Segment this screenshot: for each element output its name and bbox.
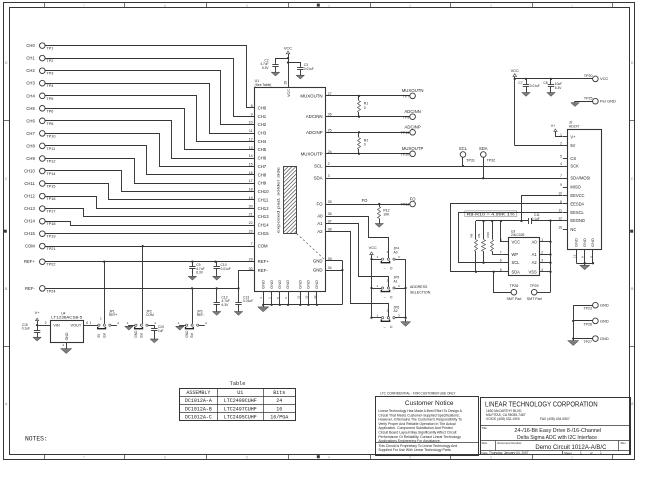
- svg-text:VCC: VCC: [284, 46, 292, 51]
- svg-text:GND: GND: [582, 238, 587, 247]
- svg-text:6.3V: 6.3V: [262, 66, 269, 70]
- svg-text:VCC: VCC: [512, 239, 521, 244]
- svg-text:CH2: CH2: [258, 122, 267, 127]
- svg-text:22: 22: [249, 221, 253, 225]
- svg-text:33: 33: [313, 295, 317, 299]
- svg-text:TP16: TP16: [46, 197, 55, 201]
- svg-text:6: 6: [86, 321, 88, 325]
- svg-text:EESCL: EESCL: [570, 210, 584, 215]
- svg-text:10K: 10K: [383, 213, 390, 217]
- svg-text:A1: A1: [394, 279, 398, 283]
- svg-text:VOICE (408) 432-1900: VOICE (408) 432-1900: [486, 417, 520, 421]
- svg-text:ADCINN: ADCINN: [306, 114, 323, 119]
- svg-text:CH9: CH9: [26, 156, 35, 161]
- svg-text:R9: R9: [477, 233, 481, 237]
- svg-text:LT1236ACS8-5: LT1236ACS8-5: [51, 316, 82, 320]
- svg-text:TP2: TP2: [46, 59, 53, 63]
- svg-text:GND: GND: [260, 280, 265, 289]
- svg-text:2: 2: [541, 251, 543, 255]
- svg-text:TP26: TP26: [583, 322, 592, 326]
- svg-text:SCL: SCL: [459, 146, 468, 151]
- svg-text:GND: GND: [134, 330, 138, 338]
- svg-text:10: 10: [558, 192, 562, 196]
- svg-text:MUXOUTN: MUXOUTN: [402, 88, 424, 93]
- svg-text:16/PGA: 16/PGA: [270, 415, 288, 421]
- svg-text:C7: C7: [518, 81, 522, 85]
- svg-text:FO: FO: [410, 196, 417, 201]
- svg-text:NC: NC: [570, 227, 576, 232]
- svg-text:19: 19: [249, 196, 253, 200]
- svg-text:4: 4: [541, 268, 543, 272]
- svg-text:CS: CS: [570, 156, 576, 161]
- svg-text:6: 6: [164, 455, 166, 459]
- svg-text:0.01uF: 0.01uF: [221, 267, 231, 271]
- svg-text:TP1: TP1: [46, 47, 53, 51]
- svg-text:0.01uF: 0.01uF: [304, 67, 314, 71]
- svg-text:VCC: VCC: [287, 89, 291, 97]
- svg-text:0: 0: [364, 143, 366, 147]
- svg-text:TP24: TP24: [46, 289, 55, 293]
- svg-text:21: 21: [296, 295, 300, 299]
- svg-text:REF-: REF-: [25, 286, 35, 291]
- svg-text:1: 1: [600, 451, 602, 455]
- svg-text:(See Table): (See Table): [255, 83, 272, 87]
- svg-text:38: 38: [328, 228, 332, 232]
- svg-text:CH7: CH7: [26, 131, 35, 136]
- svg-text:6.3V: 6.3V: [222, 303, 230, 307]
- svg-text:Document Number: Document Number: [497, 441, 521, 445]
- svg-text:V+: V+: [551, 124, 555, 128]
- svg-text:TP13: TP13: [401, 131, 410, 135]
- svg-text:GND: GND: [574, 238, 579, 247]
- svg-text:11: 11: [249, 129, 253, 133]
- svg-text:CH2: CH2: [26, 68, 35, 73]
- svg-text:3: 3: [409, 4, 411, 8]
- svg-text:ADDRESS: ADDRESS: [410, 285, 428, 289]
- svg-text:1: 1: [541, 238, 543, 242]
- svg-text:9: 9: [560, 183, 562, 187]
- svg-text:VCC: VCC: [369, 246, 377, 250]
- svg-text:14: 14: [249, 154, 253, 158]
- svg-text:CH6: CH6: [26, 118, 35, 123]
- svg-text:COM: COM: [146, 313, 154, 317]
- svg-text:CH5: CH5: [26, 106, 35, 111]
- svg-text:MUXOUTP: MUXOUTP: [301, 151, 323, 156]
- svg-text:13: 13: [572, 254, 576, 258]
- svg-text:CH11: CH11: [258, 198, 269, 203]
- svg-text:TP19: TP19: [46, 235, 55, 239]
- svg-text:12: 12: [249, 137, 253, 141]
- svg-text:of: of: [590, 451, 593, 455]
- svg-text:32: 32: [304, 295, 308, 299]
- svg-text:4: 4: [328, 4, 330, 8]
- svg-text:CH3: CH3: [26, 81, 35, 86]
- svg-text:COM: COM: [25, 244, 35, 249]
- svg-text:5V: 5V: [570, 143, 575, 148]
- svg-text:EEGND: EEGND: [570, 218, 585, 223]
- svg-text:VOUT: VOUT: [70, 323, 81, 328]
- svg-text:COM: COM: [258, 244, 268, 249]
- svg-text:Ext: Ext: [190, 333, 194, 338]
- svg-text:TP6: TP6: [46, 109, 53, 113]
- svg-text:GND: GND: [600, 318, 609, 323]
- svg-text:7: 7: [251, 242, 253, 246]
- svg-text:SDA/MOSI: SDA/MOSI: [570, 176, 590, 181]
- svg-text:SDA: SDA: [479, 146, 488, 151]
- svg-text:TP30: TP30: [401, 153, 410, 157]
- svg-text:CH8: CH8: [26, 143, 35, 148]
- svg-text:REF+: REF+: [258, 259, 270, 264]
- svg-text:MISO: MISO: [570, 185, 580, 190]
- svg-text:SCL: SCL: [314, 164, 323, 169]
- svg-text:GND: GND: [65, 332, 69, 340]
- svg-text:A0: A0: [317, 214, 323, 219]
- svg-text:23: 23: [249, 229, 253, 233]
- svg-text:8: 8: [500, 238, 502, 242]
- svg-text:GND: GND: [298, 280, 303, 289]
- svg-text:R8: R8: [470, 233, 474, 237]
- svg-text:25: 25: [328, 128, 332, 132]
- svg-text:TP9: TP9: [403, 115, 410, 119]
- svg-text:CH12: CH12: [258, 206, 270, 211]
- svg-text:7: 7: [560, 174, 562, 178]
- svg-text:MUXOUTP: MUXOUTP: [402, 146, 424, 151]
- svg-text:TP15: TP15: [46, 185, 55, 189]
- svg-text:1uF: 1uF: [158, 329, 164, 333]
- svg-text:U1: U1: [237, 390, 243, 396]
- svg-text:TP31: TP31: [466, 159, 475, 163]
- svg-text:CH4: CH4: [26, 93, 35, 98]
- svg-text:29: 29: [249, 258, 253, 262]
- svg-text:CH10: CH10: [258, 189, 270, 194]
- svg-text:3: 3: [328, 174, 330, 178]
- svg-text:4: 4: [328, 455, 330, 459]
- svg-text:Table: Table: [230, 381, 246, 387]
- svg-text:GND: GND: [313, 259, 323, 264]
- svg-text:16: 16: [276, 406, 282, 412]
- svg-text:C8: C8: [543, 81, 547, 85]
- svg-text:V+: V+: [35, 310, 41, 315]
- svg-text:CH14: CH14: [24, 219, 35, 224]
- svg-text:SMT Pad: SMT Pad: [527, 297, 542, 301]
- svg-text:R10: R10: [486, 232, 490, 238]
- svg-text:TP14: TP14: [46, 172, 55, 176]
- svg-text:GND: GND: [306, 280, 311, 289]
- svg-text:7: 7: [83, 4, 85, 8]
- svg-text:20: 20: [249, 204, 253, 208]
- svg-text:REF-: REF-: [197, 313, 205, 317]
- svg-text:2: 2: [328, 162, 330, 166]
- svg-text:13: 13: [249, 146, 253, 150]
- svg-text:A1: A1: [532, 252, 538, 257]
- svg-text:34: 34: [328, 266, 332, 270]
- svg-text:TP21: TP21: [46, 247, 55, 251]
- svg-text:CH4: CH4: [258, 139, 267, 144]
- svg-text:REF-: REF-: [258, 268, 269, 273]
- svg-text:CH0: CH0: [258, 105, 267, 110]
- svg-text:Delta Sigma ADC with I2C Inter: Delta Sigma ADC with I2C Interface: [517, 435, 597, 441]
- svg-text:TP27: TP27: [583, 340, 592, 344]
- svg-text:Title: Title: [482, 426, 488, 430]
- svg-text:2: 2: [490, 455, 492, 459]
- svg-text:6: 6: [164, 4, 166, 8]
- svg-text:Rev: Rev: [621, 441, 627, 445]
- svg-text:–: –: [384, 266, 386, 270]
- svg-text:5: 5: [560, 155, 562, 159]
- svg-text:18: 18: [249, 188, 253, 192]
- svg-text:SCK: SCK: [570, 164, 579, 169]
- svg-text:0.01uF: 0.01uF: [530, 84, 540, 88]
- svg-text:DC1012A-C: DC1012A-C: [185, 415, 212, 421]
- svg-text:A2: A2: [317, 229, 323, 234]
- svg-text:37: 37: [328, 220, 332, 224]
- svg-text:CH3: CH3: [258, 131, 267, 136]
- svg-text:Supplied For Use With Linear T: Supplied For Use With Linear Technology …: [378, 448, 451, 452]
- svg-text:TP28: TP28: [510, 284, 519, 288]
- svg-text:CH12: CH12: [24, 194, 35, 199]
- svg-text:Size: Size: [482, 441, 488, 445]
- svg-text:LTC2497CUHF: LTC2497CUHF: [224, 406, 257, 412]
- svg-text:21: 21: [249, 213, 253, 217]
- svg-text:NOTES:: NOTES:: [25, 436, 48, 443]
- svg-text:30: 30: [249, 267, 253, 271]
- svg-text:Customer Notice: Customer Notice: [405, 400, 454, 407]
- svg-text:GND: GND: [277, 280, 282, 289]
- svg-text:GND: GND: [600, 336, 609, 341]
- svg-text:CH9: CH9: [258, 181, 267, 186]
- svg-text:TP3: TP3: [46, 72, 53, 76]
- svg-text:GND: GND: [185, 330, 189, 338]
- svg-text:CH0: CH0: [26, 43, 35, 48]
- svg-text:TP32: TP32: [487, 159, 496, 163]
- svg-text:3: 3: [541, 259, 543, 263]
- svg-text:28: 28: [284, 81, 288, 85]
- svg-text:CH7: CH7: [258, 164, 267, 169]
- svg-text:VIN: VIN: [53, 323, 60, 328]
- svg-text:16: 16: [558, 225, 562, 229]
- svg-text:9: 9: [251, 112, 253, 116]
- svg-text:17: 17: [249, 179, 253, 183]
- svg-text:0.1uF: 0.1uF: [22, 327, 30, 331]
- svg-text:2: 2: [45, 321, 47, 325]
- svg-text:7: 7: [83, 455, 85, 459]
- svg-text:FO: FO: [316, 202, 323, 207]
- svg-text:TP29: TP29: [530, 284, 539, 288]
- svg-text:4: 4: [560, 162, 562, 166]
- svg-text:CH1: CH1: [26, 56, 35, 61]
- svg-text:ADCINP: ADCINP: [404, 125, 420, 130]
- svg-text:A0: A0: [394, 251, 398, 255]
- svg-text:–: –: [384, 295, 386, 299]
- svg-text:LTC2499CUHF: LTC2499CUHF: [224, 398, 257, 404]
- svg-text:5: 5: [246, 4, 248, 8]
- svg-text:GND: GND: [314, 280, 319, 289]
- svg-text:–: –: [384, 325, 386, 329]
- svg-text:TP10: TP10: [46, 134, 55, 138]
- svg-text:CH10: CH10: [24, 169, 35, 174]
- svg-text:CH11: CH11: [24, 181, 35, 186]
- svg-text:TP7: TP7: [403, 95, 410, 99]
- svg-text:Sheet: Sheet: [564, 451, 572, 455]
- svg-text:GND: GND: [600, 303, 609, 308]
- svg-text:1: 1: [571, 4, 573, 8]
- svg-text:TP4: TP4: [46, 84, 53, 88]
- svg-text:6.3V: 6.3V: [196, 271, 204, 275]
- svg-text:2: 2: [560, 142, 562, 146]
- svg-text:SELECTION: SELECTION: [410, 291, 431, 295]
- svg-text:Date:: Date:: [482, 451, 489, 455]
- svg-text:FO: FO: [362, 198, 369, 203]
- svg-text:Bits: Bits: [273, 390, 285, 396]
- svg-text:2: 2: [490, 4, 492, 8]
- svg-text:CH15: CH15: [24, 231, 35, 236]
- svg-text:REF+: REF+: [109, 313, 118, 317]
- svg-text:1: 1: [580, 451, 582, 455]
- svg-text:24-/16-Bit Easy Drive 8-/16-Ch: 24-/16-Bit Easy Drive 8-/16-Channel: [514, 428, 601, 434]
- svg-text:16: 16: [249, 171, 253, 175]
- svg-text:SDA: SDA: [512, 269, 521, 274]
- svg-text:REF+: REF+: [24, 259, 35, 264]
- svg-text:36: 36: [328, 212, 332, 216]
- svg-text:VCC: VCC: [511, 68, 519, 73]
- svg-text:ASSEMBLY: ASSEMBLY: [186, 390, 210, 396]
- svg-text:LINEAR TECHNOLOGY CORPORATION: LINEAR TECHNOLOGY CORPORATION: [485, 402, 598, 409]
- svg-text:CH6: CH6: [258, 156, 267, 161]
- svg-text:Ext: Ext: [139, 333, 143, 338]
- svg-text:TP33: TP33: [401, 203, 410, 207]
- svg-text:LTC2495CUHF: LTC2495CUHF: [224, 415, 257, 421]
- svg-text:HD2X7: HD2X7: [569, 124, 580, 128]
- svg-text:SMT Pad: SMT Pad: [506, 297, 521, 301]
- svg-text:Ext: Ext: [102, 333, 106, 338]
- svg-text:A0: A0: [532, 239, 538, 244]
- svg-text:TP23: TP23: [583, 307, 592, 311]
- svg-text:EESDA: EESDA: [570, 201, 584, 206]
- svg-text:Per GND: Per GND: [600, 99, 616, 104]
- svg-text:10: 10: [249, 121, 253, 125]
- svg-text:TP11: TP11: [46, 147, 55, 151]
- svg-text:LTC CONFIDENTIAL - FOR CUSTOME: LTC CONFIDENTIAL - FOR CUSTOMER USE ONLY: [380, 391, 456, 395]
- svg-text:TP8: TP8: [46, 122, 53, 126]
- svg-text:15: 15: [249, 163, 253, 167]
- svg-text:TP25: TP25: [584, 96, 593, 100]
- svg-text:GND: GND: [285, 280, 290, 289]
- svg-text:0.01uF: 0.01uF: [243, 299, 253, 303]
- svg-text:12: 12: [558, 217, 562, 221]
- svg-text:A1: A1: [317, 221, 323, 226]
- svg-text:ADCINP: ADCINP: [306, 130, 323, 135]
- svg-text:SCL: SCL: [512, 260, 521, 265]
- svg-text:FAX (408) 434-0507: FAX (408) 434-0507: [540, 417, 570, 421]
- svg-text:8: 8: [251, 104, 253, 108]
- svg-text:SDA: SDA: [314, 176, 323, 181]
- svg-text:EEVCC: EEVCC: [570, 193, 584, 198]
- svg-text:TP17: TP17: [46, 210, 55, 214]
- svg-text:5: 5: [500, 268, 502, 272]
- svg-text:CH1: CH1: [258, 114, 267, 119]
- svg-text:0: 0: [364, 106, 366, 110]
- svg-text:GND: GND: [590, 238, 595, 247]
- svg-text:TP18: TP18: [46, 222, 55, 226]
- svg-text:CH8: CH8: [258, 172, 267, 177]
- svg-text:0.1uF: 0.1uF: [532, 217, 540, 221]
- svg-text:Demo Circuit 1012A-A/B/C: Demo Circuit 1012A-A/B/C: [535, 444, 606, 451]
- svg-text:TP5: TP5: [46, 97, 53, 101]
- svg-text:CH13: CH13: [24, 206, 35, 211]
- svg-text:V+: V+: [570, 134, 576, 139]
- svg-text:DC1012A-B: DC1012A-B: [185, 406, 212, 412]
- svg-text:GND: GND: [313, 268, 323, 273]
- svg-text:35: 35: [328, 200, 332, 204]
- svg-text:TP12: TP12: [46, 160, 55, 164]
- svg-text:5: 5: [246, 455, 248, 459]
- svg-text:VSS: VSS: [528, 269, 536, 274]
- svg-text:CH14: CH14: [258, 223, 270, 228]
- svg-text:WP: WP: [512, 252, 519, 257]
- svg-text:A2: A2: [532, 260, 538, 265]
- svg-text:A2: A2: [394, 309, 398, 313]
- svg-text:MUXOUTN: MUXOUTN: [300, 93, 322, 98]
- svg-text:6: 6: [500, 259, 502, 263]
- svg-text:CH5: CH5: [258, 147, 267, 152]
- svg-text:11: 11: [559, 208, 563, 212]
- svg-text:ADCINN: ADCINN: [404, 109, 420, 114]
- svg-text:24LC025: 24LC025: [511, 233, 525, 237]
- svg-text:DC1012A-A: DC1012A-A: [185, 398, 212, 404]
- svg-text:24: 24: [276, 398, 282, 404]
- svg-text:exposed pad, solder side: exposed pad, solder side: [277, 167, 281, 233]
- svg-text:6.3V: 6.3V: [555, 86, 562, 90]
- svg-text:CH15: CH15: [258, 231, 270, 236]
- svg-text:Thursday, January 04, 2007: Thursday, January 04, 2007: [489, 451, 529, 455]
- svg-text:1: 1: [571, 455, 573, 459]
- svg-text:GND: GND: [269, 280, 274, 289]
- svg-text:7: 7: [500, 251, 502, 255]
- svg-text:1: 1: [90, 321, 92, 325]
- svg-text:TP20: TP20: [584, 74, 593, 78]
- svg-text:CH13: CH13: [258, 214, 270, 219]
- svg-text:TP22: TP22: [46, 263, 55, 267]
- svg-text:VCC: VCC: [600, 76, 608, 81]
